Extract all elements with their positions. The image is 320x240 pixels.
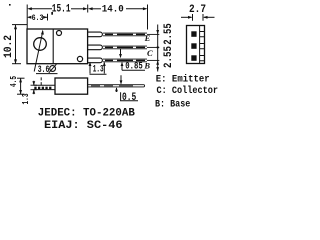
side view (right) outline <box>187 26 205 64</box>
svg-text:E: Emitter: E: Emitter <box>156 73 210 85</box>
hole centerline on tab <box>40 77 42 85</box>
svg-text:B: B <box>143 60 150 70</box>
bottom view: body <box>55 78 88 94</box>
lead E (front view) <box>88 32 160 37</box>
svg-text:0.5: 0.5 <box>122 92 137 104</box>
svg-text:C: C <box>147 48 153 58</box>
lead C (front view) <box>88 45 160 50</box>
svg-text:JEDEC: TO-220AB: JEDEC: TO-220AB <box>38 108 136 120</box>
svg-text:EIAJ: SC-46: EIAJ: SC-46 <box>44 120 123 132</box>
svg-text:15.1: 15.1 <box>52 4 71 16</box>
bottom view: lead <box>88 84 144 86</box>
svg-text:0.85: 0.85 <box>125 61 143 72</box>
mounting hole circle <box>34 38 47 51</box>
svg-text:E: E <box>144 33 151 43</box>
side view notches <box>200 32 205 61</box>
svg-text:10.2: 10.2 <box>3 35 15 58</box>
dimension 15.1 top <box>26 5 28 30</box>
side view inner line <box>199 26 201 64</box>
tab/body divider line <box>52 29 54 64</box>
small circle top <box>57 31 62 36</box>
dimension 1.3 (lead stub width) <box>89 63 91 74</box>
vertical dimension line at lead ends (2.55 chain) <box>157 25 159 72</box>
svg-text:C: Collector: C: Collector <box>157 85 219 97</box>
svg-text:1.3: 1.3 <box>20 93 31 104</box>
speck top-left <box>9 4 11 6</box>
side view lead pads <box>191 31 196 37</box>
dimension 0.5 (lead thickness, bottom view) <box>120 75 122 83</box>
front view body outline <box>27 29 88 64</box>
svg-text:6.3: 6.3 <box>32 13 44 23</box>
dimension 0.85 (lead thickness) <box>120 49 122 57</box>
svg-text:14.0: 14.0 <box>102 5 124 16</box>
bottom view: mounting tab <box>34 84 56 86</box>
dimension 14.0 top <box>88 7 93 10</box>
svg-text:3.6: 3.6 <box>38 64 50 76</box>
lead B (front view) <box>88 58 160 63</box>
svg-text:2.55: 2.55 <box>163 23 175 45</box>
small circle bottom right <box>77 56 82 61</box>
svg-text:2.55: 2.55 <box>163 46 175 68</box>
svg-text:4.5: 4.5 <box>9 76 19 87</box>
dimension 6.3 <box>27 16 32 19</box>
leader line for hole diameter <box>34 31 43 71</box>
svg-text:B: Base: B: Base <box>155 100 190 111</box>
